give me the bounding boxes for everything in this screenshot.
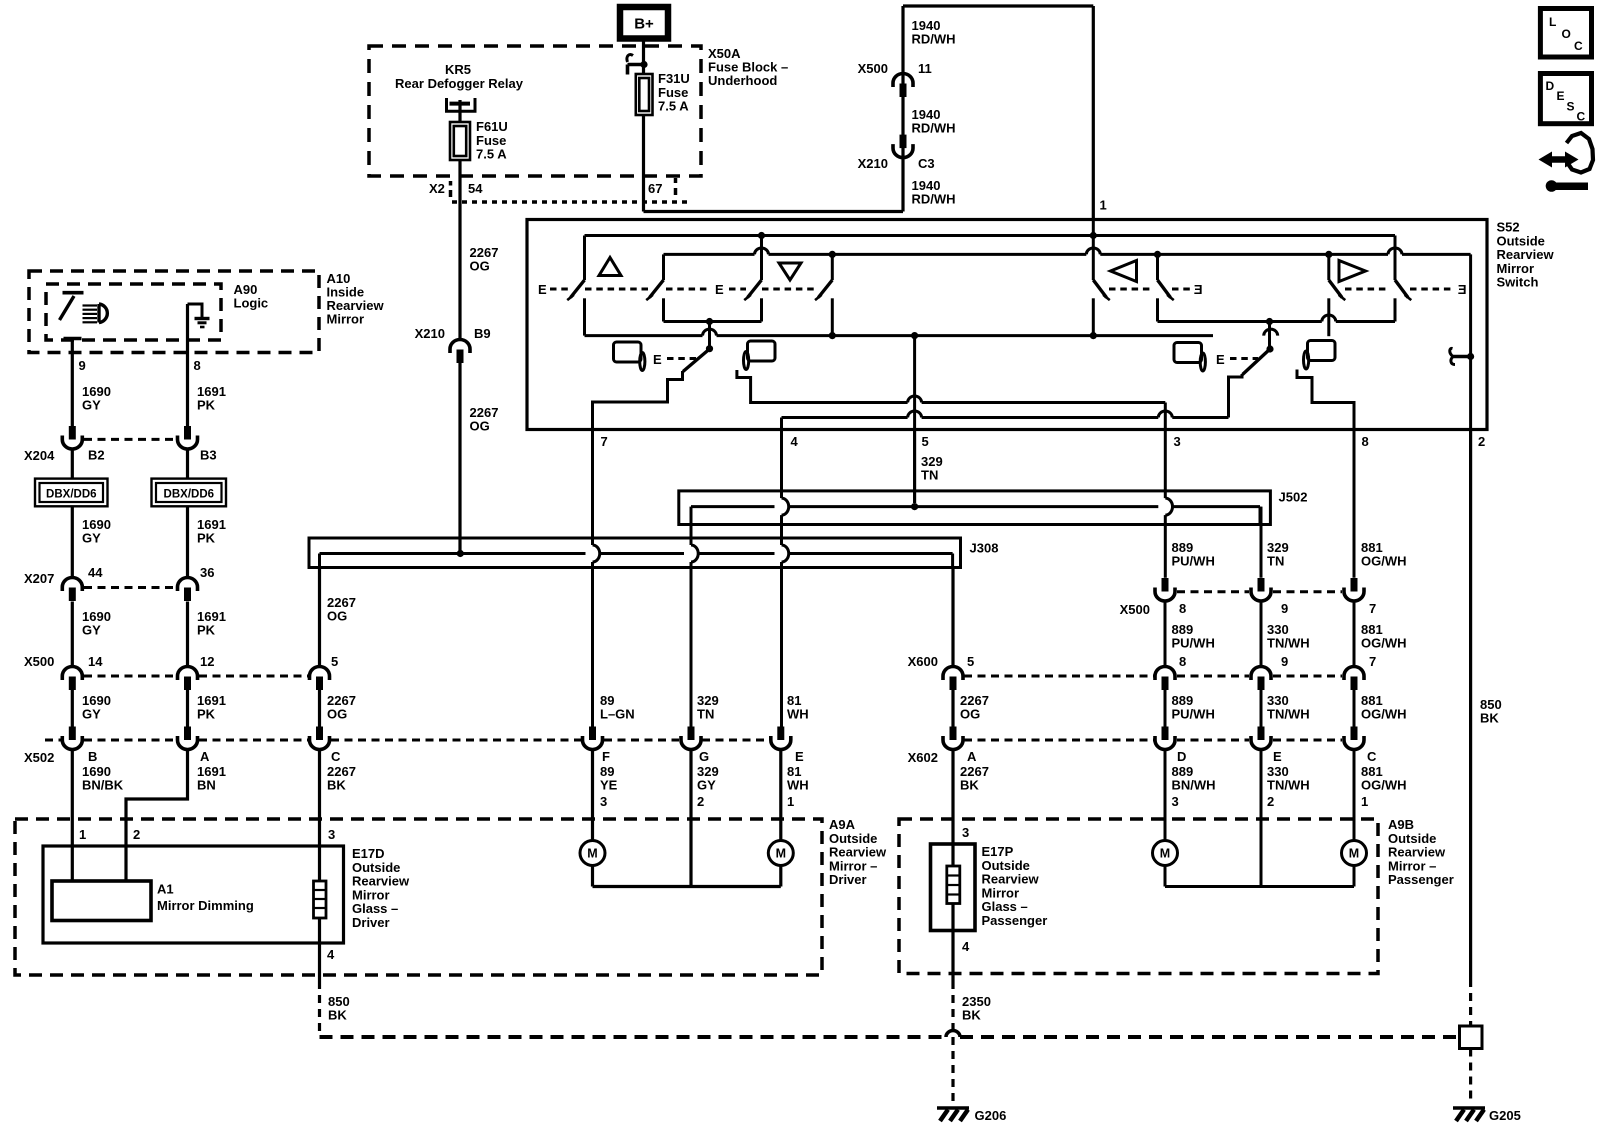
svg-text:GY: GY [82, 531, 101, 546]
A10 inside rearview mirror dashed box [29, 271, 319, 353]
wire 1691 PK pin8 [186, 304, 189, 426]
svg-text:D: D [1546, 79, 1555, 93]
A90 internal switch [63, 291, 84, 295]
svg-text:OG/WH: OG/WH [1361, 554, 1407, 569]
wire 1690 GY [71, 690, 74, 727]
wire B+ to F31U [642, 39, 645, 75]
fuse block X50A dashed box [369, 46, 701, 176]
wire A jog to E17D pin2 [126, 750, 188, 882]
svg-text:PU/WH: PU/WH [1172, 707, 1215, 722]
rail connecting left/right contacts [1158, 320, 1322, 323]
svg-text:Mirror Dimming: Mirror Dimming [157, 898, 254, 913]
relay KR5 contact symbol [447, 98, 476, 111]
svg-text:Rearview: Rearview [352, 874, 410, 889]
svg-text:OG: OG [470, 419, 490, 434]
svg-text:36: 36 [200, 565, 214, 580]
right mirror-select common [1268, 322, 1271, 350]
svg-text:A: A [200, 749, 210, 764]
svg-text:A9B: A9B [1388, 817, 1414, 832]
left select passenger contact wire [737, 370, 908, 403]
svg-text:Rearview: Rearview [982, 872, 1040, 887]
svg-text:O: O [1562, 27, 1571, 41]
svg-text:TN: TN [697, 707, 714, 722]
common rail C [585, 334, 703, 337]
svg-text:X600: X600 [908, 654, 938, 669]
svg-text:B9: B9 [474, 326, 491, 341]
svg-text:B3: B3 [200, 448, 217, 463]
svg-text:DBX/DD6: DBX/DD6 [164, 489, 214, 501]
module DBX/DD6 left [35, 479, 108, 507]
svg-text:X500: X500 [24, 654, 54, 669]
battery feed B+ [620, 7, 668, 39]
A90 logic dashed box [46, 284, 221, 340]
switch contact 6 (left-arrow right) [1156, 254, 1159, 280]
ground G205 [1453, 1106, 1485, 1109]
wire 1691 PK [186, 506, 189, 577]
svg-text:X502: X502 [24, 750, 54, 765]
E wire through J308 [782, 545, 789, 562]
svg-text:TN: TN [1267, 554, 1284, 569]
G wire from J502 through J308 [690, 525, 693, 546]
svg-text:GY: GY [697, 778, 716, 793]
wire 1691 PK [186, 690, 189, 727]
svg-text:7: 7 [1369, 654, 1376, 669]
right arrow icon [1339, 261, 1366, 282]
svg-text:E: E [1458, 282, 1467, 297]
svg-text:B+: B+ [634, 16, 654, 33]
svg-text:7: 7 [1369, 601, 1376, 616]
wire down to pin 3 [1164, 403, 1167, 430]
hook terminal at F31U [640, 61, 647, 68]
passenger mirror icon right [1308, 341, 1336, 361]
svg-text:GY: GY [82, 398, 101, 413]
connector X500 right row [1162, 578, 1169, 592]
svg-text:Mirror: Mirror [1497, 261, 1535, 276]
svg-text:Mirror –: Mirror – [1388, 858, 1436, 873]
svg-text:Mirror: Mirror [327, 312, 365, 327]
svg-text:14: 14 [88, 654, 103, 669]
wire 329 TN from J502 to X500 [1260, 507, 1263, 578]
svg-text:Rearview: Rearview [1497, 247, 1555, 262]
svg-text:5: 5 [922, 434, 929, 449]
S52 outside rearview mirror switch box [527, 220, 1487, 430]
DESC reference box [1540, 74, 1591, 124]
svg-text:RD/WH: RD/WH [912, 32, 956, 47]
svg-text:E: E [1273, 749, 1282, 764]
svg-text:PK: PK [197, 623, 216, 638]
svg-text:RD/WH: RD/WH [912, 192, 956, 207]
A90 lamp symbol [83, 304, 98, 306]
J502 bus wire [691, 505, 775, 508]
svg-text:BN/BK: BN/BK [82, 778, 124, 793]
svg-text:Outside: Outside [352, 860, 400, 875]
wire F31U pin 67 down [642, 115, 645, 212]
svg-text:Outside: Outside [982, 858, 1030, 873]
svg-text:3: 3 [962, 825, 969, 840]
svg-text:PK: PK [197, 398, 216, 413]
svg-text:4: 4 [791, 434, 799, 449]
svg-text:TN: TN [921, 468, 938, 483]
switch feed rail line A [585, 234, 1396, 237]
junction J502 box [679, 491, 1271, 525]
connector X500 left row [62, 666, 82, 680]
svg-text:OG: OG [960, 707, 980, 722]
svg-text:G: G [699, 749, 709, 764]
svg-text:OG: OG [327, 609, 347, 624]
svg-text:1: 1 [787, 794, 794, 809]
fuse F31U [636, 74, 653, 115]
wire E down [1260, 750, 1263, 887]
svg-text:Glass –: Glass – [982, 899, 1028, 914]
svg-text:F31U: F31U [658, 71, 690, 86]
A9A outside rearview mirror driver dashed box [15, 819, 822, 975]
svg-text:GY: GY [82, 623, 101, 638]
wire 1940 RD/WH top across [903, 4, 1093, 7]
wire 1691 PK [186, 602, 189, 667]
svg-text:1: 1 [1361, 794, 1368, 809]
right select passenger contact to pin 8 [1297, 370, 1354, 430]
left mirror-select common [708, 322, 711, 350]
left select driver contact to pin 7 [593, 371, 683, 430]
svg-text:8: 8 [1362, 434, 1369, 449]
module A1 mirror dimming [52, 881, 151, 921]
svg-text:X207: X207 [24, 571, 54, 586]
svg-text:12: 12 [200, 654, 214, 669]
switch contact 5 (left-arrow left) [1092, 220, 1095, 281]
LOC reference box [1540, 9, 1591, 58]
junction J308 box [309, 538, 961, 568]
svg-text:1: 1 [79, 827, 86, 842]
motor passenger vertical [1153, 841, 1178, 866]
E17P inline connector symbol [947, 866, 960, 904]
motor bus wire [591, 865, 594, 887]
wire D to passenger motor [1164, 750, 1167, 842]
wire 1940 RD/WH riser [901, 74, 904, 212]
svg-text:TN/WH: TN/WH [1267, 707, 1310, 722]
svg-text:1: 1 [1100, 198, 1107, 213]
svg-text:E: E [653, 352, 662, 367]
driver mirror icon right [1174, 343, 1202, 363]
ground G206 [937, 1106, 969, 1109]
connector X207 row [62, 578, 82, 592]
svg-text:BK: BK [1480, 711, 1499, 726]
svg-text:Driver: Driver [352, 915, 390, 930]
svg-text:Logic: Logic [234, 296, 269, 311]
svg-text:BK: BK [328, 1008, 347, 1023]
node line A to pin1 feed [1090, 232, 1097, 239]
svg-text:E17P: E17P [982, 844, 1014, 859]
motor driver horizontal [768, 841, 793, 866]
svg-text:J308: J308 [970, 541, 999, 556]
left arrow icon [1111, 261, 1137, 282]
wire A to E17P pin3 [951, 750, 954, 845]
svg-text:GY: GY [82, 707, 101, 722]
wire 2267 OG from J308 [318, 568, 321, 667]
wire down to pin 4 [780, 418, 783, 430]
motor passenger horizontal [1342, 841, 1367, 866]
svg-text:67: 67 [648, 181, 662, 196]
svg-text:M: M [776, 847, 786, 861]
svg-text:BK: BK [327, 778, 346, 793]
wire 850 BK right from switch pin2 [1469, 430, 1472, 980]
svg-text:Mirror: Mirror [352, 887, 390, 902]
svg-text:S52: S52 [1497, 220, 1520, 235]
svg-text:3: 3 [328, 827, 335, 842]
wire 1690 GY pin9 [71, 340, 74, 426]
svg-text:Fuse: Fuse [476, 133, 506, 148]
pin7 wire through J308 [591, 402, 594, 545]
svg-text:4: 4 [962, 939, 970, 954]
connector X502 row [69, 727, 76, 741]
svg-text:X500: X500 [1120, 602, 1150, 617]
connector X500 pin 11 [893, 74, 913, 88]
svg-text:E: E [795, 749, 804, 764]
wire 1940 RD/WH down to switch pin 1 [1092, 6, 1095, 220]
svg-text:C: C [1574, 39, 1583, 53]
up arrow icon [599, 258, 621, 276]
svg-text:E17D: E17D [352, 846, 385, 861]
svg-text:Glass –: Glass – [352, 901, 398, 916]
svg-text:PK: PK [197, 531, 216, 546]
svg-text:3: 3 [1174, 434, 1181, 449]
wire 2267 OG [318, 690, 321, 727]
svg-text:X210: X210 [858, 156, 888, 171]
svg-text:A: A [967, 749, 977, 764]
svg-text:Mirror: Mirror [982, 885, 1020, 900]
svg-text:G205: G205 [1489, 1108, 1521, 1123]
svg-text:TN/WH: TN/WH [1267, 636, 1310, 651]
svg-text:TN/WH: TN/WH [1267, 778, 1310, 793]
svg-text:OG/WH: OG/WH [1361, 636, 1407, 651]
svg-text:J502: J502 [1279, 490, 1308, 505]
module DBX/DD6 right [152, 479, 227, 507]
wire F to driver motor [591, 750, 594, 842]
svg-text:BK: BK [960, 778, 979, 793]
svg-text:Switch: Switch [1497, 275, 1539, 290]
wires between X500R and X600 [1164, 602, 1167, 667]
svg-text:9: 9 [79, 358, 86, 373]
svg-text:M: M [587, 847, 597, 861]
svg-text:Passenger: Passenger [1388, 872, 1454, 887]
wire KR5 to F61U [458, 100, 461, 122]
svg-text:Fuse: Fuse [658, 85, 688, 100]
wire C to E17D pin3 [318, 750, 321, 882]
direction arrow icon [1550, 156, 1567, 163]
wire 2350 BK from E17P pin4 [951, 931, 954, 982]
svg-text:KR5: KR5 [445, 62, 471, 77]
svg-text:8: 8 [194, 358, 201, 373]
svg-text:F61U: F61U [476, 119, 508, 134]
connector X204 row [69, 426, 76, 440]
svg-text:7.5 A: 7.5 A [476, 147, 507, 162]
svg-text:DBX/DD6: DBX/DD6 [46, 489, 96, 501]
svg-text:A1: A1 [157, 882, 174, 897]
svg-text:9: 9 [1281, 601, 1288, 616]
svg-text:C: C [1367, 749, 1377, 764]
A90 ground symbol [188, 304, 203, 318]
svg-text:WH: WH [787, 707, 809, 722]
rail connecting up/down contacts [664, 320, 762, 323]
svg-text:54: 54 [468, 181, 483, 196]
wire B to E17D pin1 [71, 750, 74, 882]
wires between X600 and X602 [951, 690, 954, 727]
wire 1690 GY [71, 506, 74, 577]
switch contact 1 (up-left) [583, 236, 586, 281]
motor driver vertical [580, 841, 605, 866]
svg-text:Rearview: Rearview [1388, 845, 1446, 860]
wire 2267 OG from J308 right [951, 568, 954, 667]
wire 1690 GY [71, 602, 74, 667]
fuse F61U [450, 122, 470, 160]
svg-text:PK: PK [197, 707, 216, 722]
svg-text:G206: G206 [975, 1108, 1007, 1123]
svg-text:BN/WH: BN/WH [1172, 778, 1216, 793]
svg-text:A9A: A9A [829, 817, 856, 832]
svg-text:Rear Defogger Relay: Rear Defogger Relay [395, 76, 524, 91]
wire 850 BK from E17D pin4 [318, 943, 321, 981]
svg-text:Mirror –: Mirror – [829, 858, 877, 873]
driver mirror icon [614, 342, 642, 362]
connector X602 row [950, 727, 957, 741]
svg-text:3: 3 [600, 794, 607, 809]
svg-text:Rearview: Rearview [829, 845, 887, 860]
svg-text:5: 5 [967, 654, 974, 669]
svg-text:WH: WH [787, 778, 809, 793]
J308 bus wire [320, 552, 586, 555]
svg-text:C: C [1577, 110, 1586, 124]
svg-text:E: E [1557, 89, 1565, 103]
pin 2 terminal hook [1467, 353, 1474, 360]
svg-text:X204: X204 [24, 448, 55, 463]
svg-text:Outside: Outside [1497, 233, 1545, 248]
svg-text:Outside: Outside [1388, 831, 1436, 846]
svg-text:D: D [1177, 749, 1186, 764]
svg-text:X602: X602 [908, 750, 938, 765]
svg-text:X500: X500 [858, 61, 888, 76]
svg-text:Outside: Outside [829, 831, 877, 846]
svg-text:OG: OG [470, 259, 490, 274]
svg-text:44: 44 [88, 565, 103, 580]
A9B outside rearview mirror passenger dashed box [899, 819, 1378, 974]
svg-text:7.5 A: 7.5 A [658, 99, 689, 114]
wire E to driver motor 2 [779, 750, 782, 842]
svg-text:E: E [1194, 282, 1203, 297]
svg-text:2: 2 [1478, 434, 1485, 449]
svg-text:PU/WH: PU/WH [1172, 554, 1215, 569]
svg-text:OG/WH: OG/WH [1361, 778, 1407, 793]
pin4 wire through J502 [780, 430, 783, 499]
wire F61U down to X2-54 [458, 160, 461, 202]
svg-text:8: 8 [1179, 654, 1186, 669]
svg-text:Underhood: Underhood [708, 73, 777, 88]
svg-text:YE: YE [600, 778, 618, 793]
switch contact 7 (right-arrow left) [1327, 254, 1330, 280]
svg-text:E: E [1216, 352, 1225, 367]
svg-text:2: 2 [1267, 794, 1274, 809]
svg-text:PU/WH: PU/WH [1172, 636, 1215, 651]
connector X210 pin C3 [900, 135, 907, 149]
svg-text:2: 2 [133, 827, 140, 842]
svg-text:3: 3 [1172, 794, 1179, 809]
node line A contact [758, 232, 765, 239]
node pin5 to J502 bus [911, 503, 918, 510]
connector X600 row [943, 667, 963, 681]
wire G down [689, 750, 692, 887]
pin 2 wire inside switch [1469, 254, 1472, 429]
connector X210 pin B9 [450, 340, 470, 354]
switch contact 2 (up-right) [662, 254, 665, 280]
rail C nodes [829, 332, 836, 339]
svg-text:L–GN: L–GN [600, 707, 635, 722]
svg-text:8: 8 [1179, 601, 1186, 616]
switch contact 3 (down-left) [760, 236, 763, 281]
svg-text:E: E [715, 282, 724, 297]
ground bus 850 BK dashed [320, 1035, 947, 1039]
svg-text:BK: BK [962, 1008, 981, 1023]
svg-text:B2: B2 [88, 448, 105, 463]
svg-text:5: 5 [331, 654, 338, 669]
wire 881 OG/WH from switch pin8 [1353, 430, 1356, 578]
svg-text:2: 2 [697, 794, 704, 809]
switch ground rail line B [664, 253, 755, 256]
svg-text:E: E [538, 282, 547, 297]
svg-text:OG: OG [327, 707, 347, 722]
right select driver contact to pin 4 line [1229, 374, 1243, 418]
svg-text:4: 4 [327, 947, 335, 962]
svg-text:9: 9 [1281, 654, 1288, 669]
pin4 cross wire [782, 416, 908, 419]
motor bus wire passenger [1164, 865, 1167, 887]
svg-text:F: F [602, 749, 610, 764]
wire to DBX module [71, 449, 74, 479]
pin3 wire through J502 [1164, 430, 1167, 499]
switch contact 4 (down-right) [831, 254, 834, 280]
connector X2 dotted row [452, 200, 690, 204]
junction block square [1460, 1026, 1483, 1049]
mirrored E label [1458, 282, 1467, 297]
down arrow icon [779, 263, 801, 280]
mirrored E label [1194, 282, 1203, 297]
passenger mirror icon [748, 341, 776, 361]
node line B contacts [829, 251, 836, 258]
component E17D box [43, 846, 344, 943]
svg-text:OG/WH: OG/WH [1361, 707, 1407, 722]
svg-text:S: S [1567, 100, 1575, 114]
svg-text:11: 11 [918, 61, 932, 76]
svg-text:RD/WH: RD/WH [912, 121, 956, 136]
wire 1940 RD/WH horizontal to riser [644, 210, 904, 213]
svg-text:C: C [331, 749, 341, 764]
switch contact 8 (right-arrow right) [1394, 236, 1397, 281]
svg-text:BN: BN [197, 778, 216, 793]
svg-text:C3: C3 [918, 156, 935, 171]
svg-text:M: M [1160, 847, 1170, 861]
svg-text:X210: X210 [415, 326, 445, 341]
svg-text:M: M [1349, 847, 1359, 861]
svg-text:7: 7 [601, 434, 608, 449]
wire C to passenger motor 2 [1353, 750, 1356, 842]
wire pin 5 from rail C [913, 336, 916, 503]
svg-text:Passenger: Passenger [982, 913, 1048, 928]
component E17P box [931, 844, 976, 931]
svg-text:X2: X2 [429, 181, 445, 196]
wire 54 below fuse block [458, 202, 461, 340]
E17D inline connector symbol [314, 881, 327, 918]
svg-text:B: B [88, 749, 97, 764]
svg-text:Driver: Driver [829, 872, 867, 887]
node 2267 OG feed to J308 [457, 550, 464, 557]
svg-text:L: L [1549, 15, 1556, 29]
